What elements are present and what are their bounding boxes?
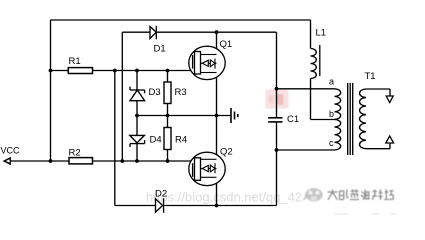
wire left rail — [50, 20, 52, 161]
wire secondary bottom — [366, 148, 390, 150]
wire secondary top — [366, 88, 390, 90]
wire D1 riser — [121, 32, 123, 161]
svg-text:R1: R1 — [69, 56, 81, 67]
junction node c C1 — [275, 148, 279, 152]
watermark text 大印蓝海科技 — [328, 189, 394, 200]
junction node a C1 — [275, 87, 279, 91]
wire D2 riser — [114, 71, 116, 206]
svg-text:L1: L1 — [316, 28, 327, 39]
wire L1 column — [310, 20, 312, 49]
junction gate2-D4 — [135, 159, 139, 163]
inductor L1 — [311, 28, 327, 79]
wire node c — [277, 149, 335, 151]
junction Q2 drain — [215, 204, 219, 208]
resistor R2 — [69, 148, 93, 164]
svg-text:R4: R4 — [175, 135, 187, 146]
junction gnd-R3-R4 — [166, 114, 170, 118]
svg-text:VCC: VCC — [1, 145, 21, 155]
svg-text:T1: T1 — [365, 71, 376, 82]
svg-text:a: a — [329, 77, 334, 87]
resistor R1 — [68, 56, 92, 74]
junction gate2-D1 branch — [120, 159, 124, 163]
wire L1 to center tap — [310, 79, 312, 120]
svg-text:c: c — [329, 138, 334, 148]
transistor Q2 — [189, 147, 233, 186]
svg-text:https://blog.csdn.net/qq_42: https://blog.csdn.net/qq_42 — [146, 190, 302, 205]
svg-text:D2: D2 — [155, 189, 167, 200]
wire R2 row — [93, 160, 192, 162]
junction Q1 drain — [215, 30, 219, 34]
wire D2 row — [115, 205, 277, 207]
transformer T1 — [335, 71, 376, 155]
junction gate1-D2 branch — [113, 69, 117, 73]
wire R1 row — [51, 70, 69, 72]
svg-text:D1: D1 — [154, 44, 166, 55]
transistor Q1 — [189, 39, 232, 80]
junction gnd-D3-D4 — [135, 114, 139, 118]
wire FET drain-source column — [216, 32, 218, 205]
diode D2 — [155, 189, 167, 213]
svg-text:D4: D4 — [150, 135, 162, 146]
secondary top terminal arrow — [386, 96, 393, 103]
ground — [231, 108, 238, 123]
svg-text:D3: D3 — [149, 87, 161, 98]
secondary bottom terminal arrow — [386, 136, 394, 143]
svg-text:Q1: Q1 — [220, 39, 233, 50]
zener D3 — [130, 71, 161, 116]
resistor R4 — [164, 116, 187, 162]
wire D1 row — [122, 31, 276, 33]
watermark logo — [303, 188, 323, 201]
resistor R3 — [164, 71, 187, 116]
capacitor C1 — [268, 114, 299, 125]
watermark faint bottom dashes — [334, 213, 397, 215]
junction gnd-sources — [215, 114, 219, 118]
svg-text:R2: R2 — [69, 148, 81, 159]
svg-text:b: b — [329, 109, 334, 119]
junction rail-R1 — [49, 69, 53, 73]
wire node a — [277, 88, 335, 90]
svg-text:R3: R3 — [175, 87, 187, 98]
zener D4 — [130, 116, 162, 162]
wire top outer — [51, 19, 311, 21]
wire VCC feed — [10, 160, 69, 162]
svg-text:Q2: Q2 — [220, 147, 233, 158]
VCC arrow — [3, 157, 11, 166]
junction rail-R2 — [49, 159, 53, 163]
watermark pink stamp — [265, 89, 288, 108]
junction gate1-D3 — [135, 69, 139, 73]
junction gate2-R4 — [166, 159, 170, 163]
wire C1 column — [276, 32, 278, 118]
junction gate1-R3 — [166, 69, 170, 73]
svg-text:C1: C1 — [287, 114, 299, 125]
diode D1 — [150, 26, 166, 55]
wire ground row — [137, 115, 231, 117]
